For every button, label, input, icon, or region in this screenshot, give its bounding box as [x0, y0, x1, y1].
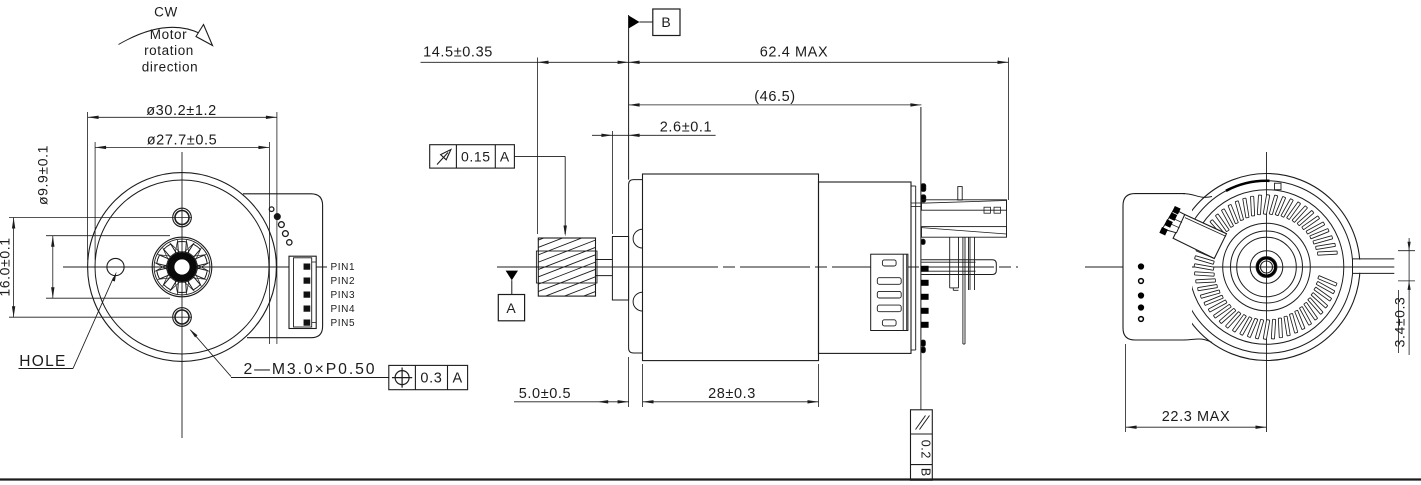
- CW text: [154, 5, 178, 20]
- CW rotation arc: [119, 25, 213, 46]
- svg-text:0.3: 0.3: [420, 371, 442, 387]
- svg-text:PIN5: PIN5: [331, 318, 356, 329]
- side view: rear shaft: [922, 260, 997, 275]
- svg-text:(46.5): (46.5): [754, 89, 795, 105]
- HOLE label with leader: [19, 272, 117, 370]
- front view: HOLE pilot hole: [107, 258, 124, 275]
- svg-text:PIN2: PIN2: [331, 276, 356, 287]
- svg-text:16.0±0.1: 16.0±0.1: [0, 237, 13, 296]
- svg-text:CW: CW: [154, 5, 178, 20]
- rear view: rim circle: [1180, 181, 1353, 354]
- side view: five connector pins: [921, 266, 929, 328]
- svg-text:28±0.3: 28±0.3: [708, 386, 756, 402]
- svg-text:B: B: [661, 14, 671, 30]
- datum A flag: [498, 267, 538, 321]
- dim 28±0.3: [643, 386, 819, 404]
- side view: motor can: [643, 174, 819, 361]
- rear view: protruding connector: [1159, 206, 1226, 259]
- front view: motor inner rim circle ø27.7: [95, 180, 269, 354]
- dim ø30.2±1.2: [88, 103, 277, 119]
- side view: can crimp bump upper: [633, 229, 642, 248]
- front view: 5-pin connector receptacle: [289, 256, 316, 328]
- dim ø27.7±0.5 extension lines: [95, 142, 269, 344]
- side view: hanging terminal strips: [950, 237, 975, 344]
- dim 3.4±0.3: [1392, 238, 1416, 355]
- svg-text:0.2: 0.2: [918, 440, 932, 459]
- dim 14.5±0.35 and 62.4 MAX line: [421, 45, 1009, 65]
- svg-text:Motor: Motor: [150, 27, 188, 42]
- dim 16.0±0.1 extension lines: [9, 218, 192, 318]
- side view: bearing boss: [612, 237, 628, 301]
- motor rotation direction text: [142, 27, 198, 74]
- rear view: vent ring outer circle: [1189, 190, 1344, 345]
- side view: crimp tabs on cap: [921, 184, 926, 353]
- dim 62.4 extension line: [1008, 58, 1010, 201]
- front view: M3 screw hole 1: [173, 208, 192, 227]
- rear view: inner circles: [1223, 223, 1311, 311]
- svg-text:direction: direction: [142, 59, 198, 74]
- rear view: shaft flat notch: [1340, 259, 1397, 274]
- rear view: horizontal centerline: [1085, 266, 1395, 268]
- GD&T frame: parallelism 0.2 B: [911, 410, 933, 480]
- front view: horizontal centerline: [63, 266, 327, 268]
- runout frame 0.15 A: [430, 145, 567, 237]
- svg-text:22.3 MAX: 22.3 MAX: [1162, 409, 1230, 425]
- svg-text:rotation: rotation: [144, 43, 194, 58]
- dim 16.0±0.1: [0, 218, 15, 318]
- svg-text:A: A: [500, 149, 510, 165]
- svg-text:ø27.7±0.5: ø27.7±0.5: [147, 132, 218, 148]
- side view: worm gear root profile: [536, 251, 597, 283]
- svg-text:ø9.9±0.1: ø9.9±0.1: [35, 145, 51, 205]
- svg-text:A: A: [506, 300, 516, 316]
- svg-text:PIN4: PIN4: [331, 304, 356, 315]
- side view: rear endcap: [819, 182, 912, 353]
- front view: center bearing boss with gear retainer: [152, 237, 212, 297]
- svg-text:0.15: 0.15: [461, 149, 491, 165]
- side view: centerline: [497, 266, 1018, 268]
- rear view: rim crimp mark: [1226, 181, 1270, 191]
- dim ø27.7±0.5: [95, 132, 269, 149]
- svg-text:PIN3: PIN3: [331, 290, 356, 301]
- svg-text:14.5±0.35: 14.5±0.35: [423, 45, 493, 61]
- side view: front endbell plate: [629, 180, 643, 353]
- svg-text:B: B: [918, 468, 932, 477]
- rear view: rim tab notch: [1275, 183, 1282, 190]
- front view: motor outer circle ø30.2: [88, 173, 277, 362]
- rear view: bearing ring: [1256, 257, 1277, 278]
- rear view: outer circle: [1173, 174, 1360, 361]
- front view: five small rivet dots: [269, 207, 292, 245]
- svg-text:A: A: [452, 371, 462, 387]
- svg-text:HOLE: HOLE: [19, 353, 66, 370]
- front view: vertical centerline: [181, 152, 183, 438]
- side view: can crimp bump lower: [633, 292, 642, 311]
- rear view: vent slot ring: [1194, 195, 1337, 340]
- dim ø30.2±1.2 extension lines: [88, 112, 277, 344]
- dim 14.5 extension line: [537, 58, 539, 235]
- side view: worm gear outer profile: [538, 238, 595, 296]
- side view: rear bracket/spring assembly: [911, 187, 1007, 238]
- dim 5.0±0.5: [514, 386, 629, 404]
- datum B flag: [629, 9, 680, 180]
- side view: connector block (side): [871, 254, 908, 330]
- 2-M3.0×P0.50 label and leader: [190, 329, 389, 378]
- svg-text:2.6±0.1: 2.6±0.1: [660, 119, 712, 135]
- svg-text:2—M3.0×P0.50: 2—M3.0×P0.50: [243, 361, 376, 378]
- svg-text:PIN1: PIN1: [331, 262, 356, 273]
- dim 2.6±0.1: [592, 119, 716, 234]
- side view: worm gear helix hatch: [536, 217, 598, 329]
- svg-text:3.4±0.3: 3.4±0.3: [1392, 297, 1408, 348]
- side view: rear cap inner face: [911, 186, 916, 350]
- svg-text:5.0±0.5: 5.0±0.5: [519, 386, 571, 402]
- GD&T frame: position 0.3 A: [389, 365, 468, 389]
- side view: front shaft: [596, 260, 613, 276]
- parallelism frame leader: [920, 360, 922, 410]
- dim 22.3 MAX: [1126, 344, 1267, 432]
- bottom dims extension lines: [629, 357, 819, 407]
- front view: connector tab housing: [243, 194, 323, 338]
- drawing frame bottom border: [0, 478, 1421, 480]
- rear view: vertical centerline: [1266, 152, 1268, 432]
- dim (46.5): [629, 89, 922, 107]
- rear view: five terminal dots: [1139, 264, 1144, 321]
- dim ø9.9±0.1: [35, 145, 55, 298]
- side view: rear plate line: [920, 107, 922, 360]
- svg-text:62.4 MAX: 62.4 MAX: [760, 45, 828, 61]
- svg-text:ø30.2±1.2: ø30.2±1.2: [146, 103, 217, 119]
- dim ø9.9±0.1 extension lines: [46, 236, 170, 299]
- rear view: mounting tab: [1123, 194, 1212, 343]
- front view: PIN1-PIN5 labels: [331, 262, 356, 329]
- front view: M3 screw hole 2: [173, 308, 192, 327]
